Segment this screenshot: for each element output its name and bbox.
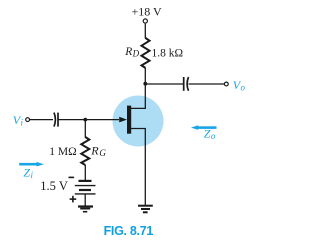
- wire source to ground: [131, 129, 145, 206]
- svg-text:FIG. 8.71: FIG. 8.71: [104, 224, 154, 238]
- svg-text:Vi: Vi: [13, 113, 24, 128]
- resistor RG: [81, 137, 89, 165]
- wire drain bend into transistor: [131, 84, 145, 108]
- svg-text:Zi: Zi: [23, 165, 33, 180]
- svg-text:RG: RG: [90, 144, 106, 159]
- ground battery: [78, 205, 93, 212]
- node +18 V terminal: [143, 19, 147, 23]
- node gate junction: [83, 118, 87, 122]
- svg-text:RD: RD: [124, 46, 139, 59]
- wire battery to ground: [84, 194, 86, 206]
- label battery plus: [70, 196, 77, 203]
- transistor Q1 JFET channel bar: [127, 106, 131, 134]
- wire RD to drain node: [144, 68, 146, 84]
- capacitor C1: [54, 113, 58, 127]
- wire drain node to C2: [145, 83, 183, 85]
- wire C1 to gate with junction: [59, 119, 120, 121]
- ground source: [138, 205, 153, 214]
- label battery minus: [69, 177, 75, 179]
- impedance arrow Zo: [191, 125, 217, 130]
- battery 1.5 V: [75, 181, 96, 194]
- node Vi terminal: [26, 118, 30, 122]
- wire C2 to output terminal: [189, 83, 225, 85]
- svg-text:Vo: Vo: [233, 78, 246, 93]
- transistor Q1 gate arrowhead: [119, 117, 127, 123]
- wire supply to RD: [144, 24, 146, 39]
- wire gate node to RG: [84, 120, 86, 138]
- svg-text:+18 V: +18 V: [132, 5, 163, 19]
- transistor Q1 highlight: [113, 96, 164, 147]
- node drain junction: [143, 82, 147, 86]
- svg-text:1 MΩ: 1 MΩ: [49, 146, 76, 158]
- resistor RD: [142, 38, 150, 68]
- wire RG to battery: [84, 165, 86, 180]
- impedance arrow Zi: [19, 162, 44, 167]
- svg-text:1.8 kΩ: 1.8 kΩ: [152, 47, 184, 59]
- wire Vi to C1: [30, 119, 53, 121]
- capacitor C2: [184, 77, 189, 91]
- node Vo terminal: [224, 82, 228, 86]
- svg-text:1.5 V: 1.5 V: [40, 179, 68, 193]
